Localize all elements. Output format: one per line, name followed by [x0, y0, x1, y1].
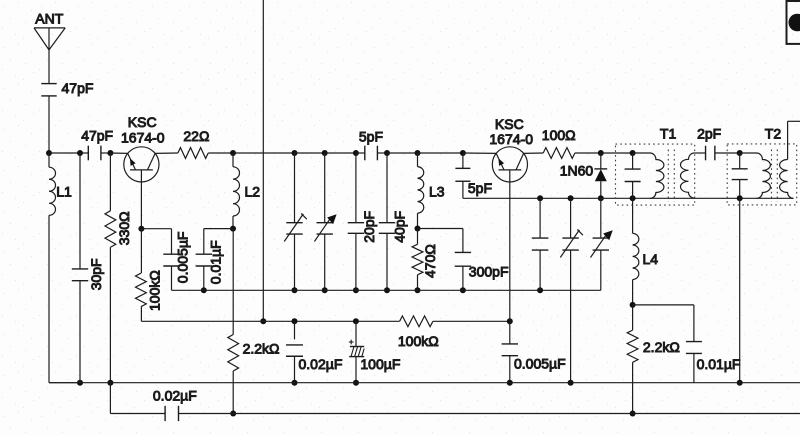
svg-text:T2: T2: [765, 126, 782, 142]
wire base node to C 0.005uF: [141, 229, 171, 255]
svg-text:L3: L3: [429, 184, 445, 200]
label 40pF (rotated): [392, 211, 408, 243]
label 0.005&#181;F (detector): [514, 356, 566, 372]
wire L4 node to C 0.01uF: [633, 305, 694, 342]
wire 330 node down to rail F: [109, 383, 111, 414]
label 30pF (rotated): [88, 258, 104, 290]
node det trimmer top junction: [568, 195, 574, 201]
capacitor T2 tuning: [732, 153, 748, 198]
svg-text:5pF: 5pF: [468, 180, 492, 196]
inductor L4: [633, 198, 639, 305]
label 47pF (coupling): [81, 128, 113, 144]
capacitor 2pF: [706, 146, 715, 161]
wire antenna to C 47pF: [48, 50, 50, 84]
wire L3 node to 300pF: [418, 229, 463, 253]
label 5pF (series): [359, 128, 383, 144]
transformer T1 dotted shield box: [616, 144, 695, 205]
label 5pF (shunt): [468, 180, 492, 196]
resistor R 470ohm: [412, 229, 423, 291]
node 0.01uF bottom junction: [201, 287, 207, 293]
svg-text:300pF: 300pF: [469, 264, 509, 280]
capacitor 100uF electrolytic: [349, 321, 364, 382]
wire rail F right segment: [179, 413, 800, 415]
wire rail E left segment: [49, 382, 80, 384]
transistor Q1 base bar: [130, 169, 153, 171]
node variable VC2 top junction: [322, 150, 328, 156]
wire rail F left segment: [110, 413, 165, 415]
node L2 top junction: [230, 150, 236, 156]
node VC1 bottom junction: [292, 287, 298, 293]
svg-text:100µF: 100µF: [360, 356, 400, 372]
wire T1 secondary to C 2pF: [694, 152, 705, 154]
svg-text:0.005µF: 0.005µF: [175, 232, 191, 284]
wire rail B: [172, 289, 601, 291]
node L3 bottom junction: [415, 226, 421, 232]
transformer T1 core: [668, 150, 674, 202]
transistor Q2 base bar: [499, 169, 522, 171]
wire L2 node to C 0.01uF: [204, 229, 233, 255]
wire T2 column to rail E: [739, 198, 741, 382]
svg-text:0.02µF: 0.02µF: [153, 388, 197, 404]
capacitor 0.005uF (base): [163, 254, 179, 290]
capacitor 40pF: [379, 153, 395, 290]
node 470 bottom junction: [415, 287, 421, 293]
node 20pF bottom junction: [353, 287, 359, 293]
trimmer capacitor VC1: [284, 153, 307, 290]
node rail B detector junction: [537, 287, 543, 293]
node VC2 bottom junction: [322, 287, 328, 293]
capacitor 0.005uF (detector): [502, 344, 518, 383]
node 300pF bottom junction: [460, 287, 466, 293]
wire Q2 base to C 0.005uF: [509, 321, 511, 344]
node trimmer VC1 top junction: [292, 150, 298, 156]
node 0.02uF rail E junction: [292, 380, 298, 386]
svg-text:L2: L2: [245, 184, 261, 200]
svg-text:20pF: 20pF: [361, 211, 377, 243]
node L3 top junction: [415, 150, 421, 156]
label 2pF: [697, 125, 721, 141]
svg-text:100Ω: 100Ω: [542, 127, 576, 143]
svg-text:0.01µF: 0.01µF: [697, 356, 741, 372]
wire node to Q2 emitter: [463, 152, 496, 154]
wire Q1 collector to R 22: [155, 152, 178, 154]
trimmer capacitor detector: [560, 198, 583, 382]
svg-text:ANT: ANT: [35, 11, 63, 27]
capacitor 0.01uF (output): [686, 342, 702, 383]
label 2.2k&#937; (first): [243, 341, 280, 357]
wire R 100 to diode node: [575, 152, 601, 154]
node rail C 100u junction: [353, 318, 359, 324]
wire node to Q1 emitter: [110, 152, 127, 154]
node long vertical to rail C junction: [260, 318, 266, 324]
node T2 cap bottom junction: [737, 195, 743, 201]
transistor Q2 collector diagonal: [516, 153, 524, 170]
resistor R 100k (horizontal): [400, 316, 433, 327]
node diode bottom junction: [598, 195, 604, 201]
svg-text:22Ω: 22Ω: [183, 128, 209, 144]
label 100&#937;: [542, 127, 576, 143]
wire L2 node to trimmer VC1 column: [233, 152, 295, 154]
svg-text:0.02µF: 0.02µF: [299, 356, 343, 372]
node 2.2k rail F junction: [230, 411, 236, 417]
label 100k&#937; (horizontal): [398, 333, 439, 349]
node T2 column rail E junction: [737, 380, 743, 386]
label 1N60: [560, 162, 594, 178]
label 0.005&#181;F (rotated): [175, 232, 191, 284]
svg-text:330Ω: 330Ω: [116, 211, 132, 245]
label 22&#937;: [183, 128, 209, 144]
svg-text:5pF: 5pF: [359, 128, 383, 144]
wire T2 secondary up lead: [787, 121, 789, 159]
label 0.01&#181;F (rotated): [208, 240, 224, 284]
capacitor 47pF (antenna series): [41, 84, 56, 96]
wire R 22 to L2 top node: [208, 152, 233, 154]
svg-text:1N60: 1N60: [560, 162, 594, 178]
transistor Q1 collector diagonal: [148, 153, 156, 170]
transformer T2 core: [772, 150, 778, 202]
label L2: [245, 184, 261, 200]
capacitor 5pF (shunt): [455, 153, 470, 198]
capacitor 5pF (series): [365, 146, 378, 161]
wire 20pF node to C 5pF: [356, 152, 365, 154]
wire C 2pF to T2 node: [715, 152, 740, 154]
node 40pF top junction: [384, 150, 390, 156]
earphone plug circle: [789, 14, 800, 32]
wire Q2 base lead: [509, 170, 511, 321]
node 40pF bottom junction: [384, 287, 390, 293]
label T2: [765, 126, 782, 142]
capacitor T1 tuning: [625, 153, 641, 198]
capacitor 0.02uF (emitter): [286, 321, 303, 382]
svg-text:47pF: 47pF: [62, 80, 94, 96]
label 300pF: [469, 264, 509, 280]
diode D 1N60: [594, 153, 607, 198]
node L4 bottom junction: [630, 302, 636, 308]
wire earphone lead: [788, 120, 800, 122]
svg-text:L1: L1: [56, 184, 72, 200]
label 100k&#937; (rotated): [147, 270, 163, 311]
node 100uF rail E junction: [353, 380, 359, 386]
wire 2.2k to rail F: [232, 371, 234, 414]
label 0.02&#181;F (bottom): [153, 388, 197, 404]
svg-text:100kΩ: 100kΩ: [398, 333, 439, 349]
svg-text:30pF: 30pF: [88, 258, 104, 290]
node A junction: [46, 150, 52, 156]
wire 40pF node to L3 node: [387, 152, 418, 154]
wire to variable VC2 column: [295, 152, 325, 154]
variable capacitor VC2: [314, 153, 336, 290]
wire 30pF node to C 47pF coupling: [80, 152, 89, 154]
wire node A to 30pF node: [49, 152, 80, 154]
transistor Q1 body: [124, 147, 159, 182]
capacitor 300pF: [455, 252, 471, 290]
antenna ANT symbol: [34, 28, 65, 50]
transistor Q1 emitter arrow: [130, 158, 136, 166]
wire 47pF to node A: [48, 96, 50, 153]
node 2.2k second rail F junction: [630, 411, 636, 417]
node Q1 emitter junction: [107, 150, 113, 156]
node diode top junction: [598, 150, 604, 156]
wire to 20pF column: [325, 152, 356, 154]
svg-text:KSC: KSC: [495, 116, 524, 132]
node Q1 base junction: [138, 226, 144, 232]
node T2 cap top junction: [737, 150, 743, 156]
svg-text:2.2kΩ: 2.2kΩ: [243, 341, 280, 357]
node 30pF bottom junction: [77, 380, 83, 386]
transformer T1 primary winding: [633, 153, 664, 198]
wire Q1 base lead: [140, 170, 142, 229]
wire L2 node down to R 2.2k: [232, 229, 234, 335]
capacitor 0.01uF (base): [196, 254, 212, 290]
svg-text:0.005µF: 0.005µF: [514, 356, 566, 372]
transformer T2 dotted shield box: [727, 144, 797, 205]
node 5pF shunt top junction: [460, 150, 466, 156]
earphone jack box: [787, 1, 800, 45]
label 1674-0 (Q1): [121, 130, 165, 146]
svg-text:KSC: KSC: [128, 114, 157, 130]
capacitor 0.02uF (bottom coupling): [165, 406, 178, 421]
wire rail C middle: [263, 320, 399, 322]
capacitor detector fixed: [532, 198, 549, 290]
inductor L3: [418, 153, 424, 229]
transistor Q2 emitter diagonal: [496, 153, 504, 170]
node T1 cap top junction: [630, 150, 636, 156]
wire rail C right: [433, 320, 510, 322]
label T1: [660, 126, 677, 142]
label 20pF (rotated): [361, 211, 377, 243]
wire diode node to T1 cap node: [601, 152, 633, 154]
svg-text:1674-0: 1674-0: [489, 131, 533, 147]
wire C 5pF to 40pF node: [377, 152, 387, 154]
inductor L1: [49, 153, 56, 383]
resistor R 22ohm: [178, 148, 208, 159]
transformer T1 secondary winding: [681, 153, 695, 198]
label KSC (Q1): [128, 114, 157, 130]
variable capacitor detector: [591, 198, 613, 290]
wire L3 node to 5pF shunt node: [418, 152, 463, 154]
node 0.005uF rail E junction: [507, 380, 513, 386]
label 330&#937; (rotated): [116, 211, 132, 245]
resistor R 2.2k (first): [228, 335, 239, 371]
capacitor 20pF: [348, 153, 364, 290]
label L4: [643, 251, 659, 267]
label 2.2k&#937; (second): [643, 339, 680, 355]
transformer T2 secondary winding: [780, 160, 794, 199]
label 47pF (antenna): [62, 80, 94, 96]
resistor R 330ohm: [105, 153, 116, 383]
svg-text:2pF: 2pF: [697, 125, 721, 141]
node det trimmer rail E junction: [568, 380, 574, 386]
transistor Q2 emitter arrow: [498, 158, 504, 166]
label 470&#937; (rotated): [422, 244, 438, 278]
resistor R 2.2k (second): [627, 305, 638, 414]
node L2 bottom junction: [230, 226, 236, 232]
label L1: [56, 184, 72, 200]
resistor R 100k (vertical): [136, 229, 147, 322]
svg-text:47pF: 47pF: [81, 128, 113, 144]
wire coupling cap to Q1 emitter node: [101, 152, 111, 154]
svg-text:T1: T1: [660, 126, 677, 142]
node rail C 0.02 junction: [292, 318, 298, 324]
label KSC (Q2): [495, 116, 524, 132]
wire long vertical feed: [262, 0, 264, 321]
resistor R 100ohm: [543, 148, 575, 159]
label 0.01&#181;F (output): [697, 356, 741, 372]
label ANT: [35, 11, 63, 27]
svg-text:L4: L4: [643, 251, 659, 267]
wire rail C left: [141, 320, 263, 322]
label L3: [429, 184, 445, 200]
inductor L2: [233, 153, 240, 229]
svg-text:2.2kΩ: 2.2kΩ: [643, 339, 680, 355]
node rail C Q2 base junction: [507, 318, 513, 324]
svg-text:40pF: 40pF: [392, 211, 408, 243]
node 30pF top junction: [77, 150, 83, 156]
svg-text:470Ω: 470Ω: [422, 244, 438, 278]
transistor Q2 body: [492, 147, 527, 182]
node 330 bottom junction: [107, 380, 113, 386]
svg-text:0.01µF: 0.01µF: [208, 240, 224, 284]
node T1 cap bottom junction: [630, 195, 636, 201]
svg-text:100kΩ: 100kΩ: [147, 270, 163, 311]
label 100&#181;F: [360, 356, 400, 372]
capacitor 30pF: [72, 153, 88, 383]
wire Q2 collector to R 100: [524, 152, 544, 154]
transistor Q1 emitter diagonal: [128, 153, 136, 170]
svg-text:1674-0: 1674-0: [121, 130, 165, 146]
node 20pF top junction: [353, 150, 359, 156]
label 0.02&#181;F (emitter): [299, 356, 343, 372]
capacitor 47pF (coupling): [88, 146, 101, 161]
node det cap top junction: [537, 195, 543, 201]
wire rail D: [463, 197, 794, 199]
label 1674-0 (Q2): [489, 131, 533, 147]
wire rail E (ground bus): [49, 382, 800, 384]
transformer T2 primary winding: [740, 153, 771, 198]
